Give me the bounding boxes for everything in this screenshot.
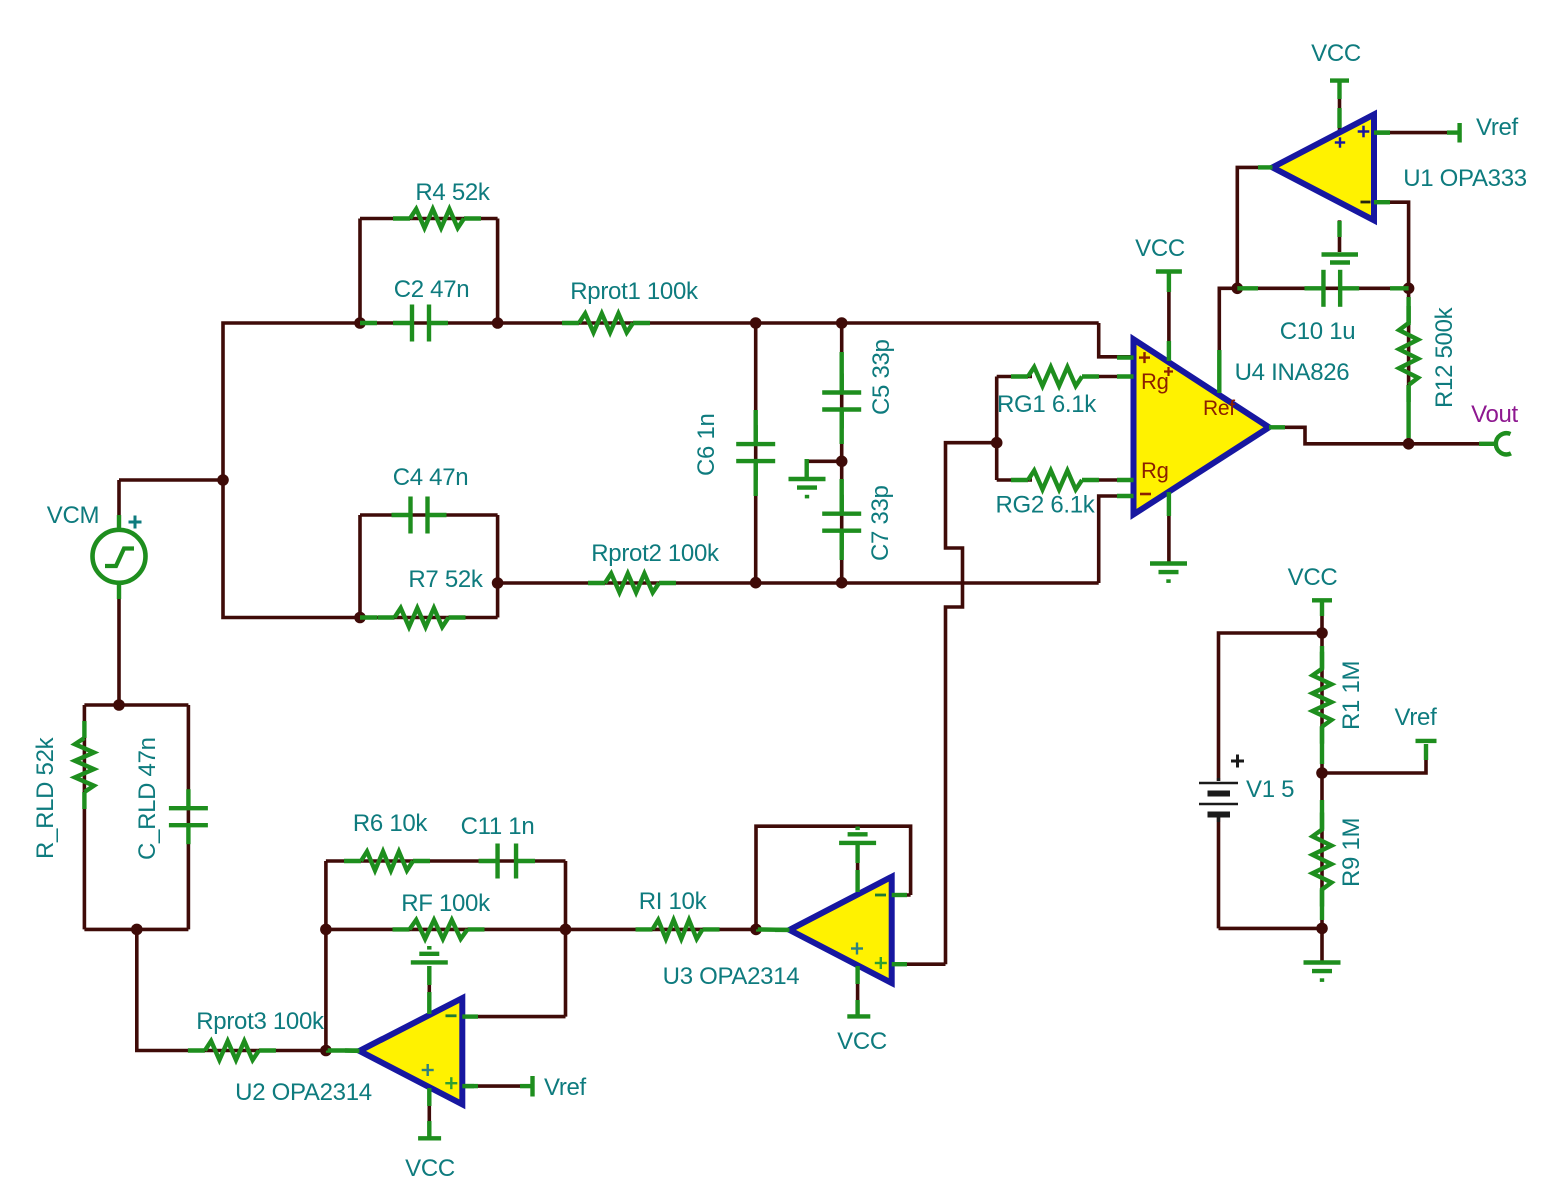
wire C_RLD vertical	[187, 705, 191, 929]
wire RG2 left link	[997, 478, 1032, 482]
pin + power (U1)	[1335, 137, 1345, 147]
resistor R7 52k	[378, 608, 466, 627]
svg-text:Rg: Rg	[1141, 458, 1169, 483]
wire Rg-node vertical with jog	[946, 443, 997, 965]
svg-text:C11 1n: C11 1n	[461, 813, 535, 840]
wire U1 output loop	[1237, 167, 1272, 288]
wire V1 bottom branch	[1219, 927, 1323, 931]
svg-text:C10 1u: C10 1u	[1280, 318, 1356, 345]
svg-text:U2 OPA2314: U2 OPA2314	[235, 1079, 372, 1106]
node C6 bottom junction	[750, 577, 762, 589]
pin + power (U3)	[851, 943, 863, 955]
wire V1 VCC stem	[1320, 601, 1324, 633]
wire U3 +in wire	[892, 962, 946, 966]
label C11 1n	[461, 813, 535, 840]
label R9 1M	[1338, 818, 1365, 887]
label RG2 6.1k	[996, 492, 1096, 519]
svg-text:Vref: Vref	[1476, 114, 1519, 141]
wire top-left rail	[223, 323, 360, 618]
pin stub U3 out	[775, 928, 789, 932]
label V1 5	[1246, 776, 1294, 803]
wire C4 box right vertical	[496, 515, 500, 618]
wire RLD to Rprot3	[137, 929, 326, 1050]
wire ground stem (divider)	[1320, 928, 1324, 961]
svg-text:R4 52k: R4 52k	[415, 179, 491, 206]
node RLD bottom junction	[131, 924, 143, 936]
resistor R6 10k	[344, 852, 430, 871]
wire C2 line	[360, 321, 498, 325]
ground at C5/C7	[789, 479, 826, 498]
svg-text:Vout: Vout	[1471, 401, 1518, 428]
terminal Vout output pin	[1479, 433, 1511, 454]
node C5 top junction	[836, 317, 848, 329]
wire ground stub drop	[805, 459, 809, 478]
wire U3 -in wire	[892, 893, 911, 897]
wire U3 output lead	[756, 927, 789, 932]
pin stub U1 +in	[1374, 130, 1390, 134]
label C2 47n	[394, 276, 470, 303]
resistor Rprot2 100k	[588, 574, 676, 593]
label RG1 6.1k	[997, 391, 1097, 418]
svg-text:Rprot3 100k: Rprot3 100k	[196, 1008, 325, 1035]
capacitor C6 1n	[736, 425, 775, 480]
svg-text:C5 33p: C5 33p	[868, 339, 895, 415]
pin - input (U1)	[1361, 201, 1371, 204]
label RF 100k	[401, 890, 491, 917]
wire Vref branch	[1322, 744, 1426, 773]
label RI 10k	[639, 888, 708, 915]
label Vref (U2)	[544, 1074, 587, 1101]
label Rprot1 100k	[570, 278, 699, 305]
node R9 bottom junction	[1316, 923, 1328, 935]
wire VCM top lead	[117, 480, 121, 532]
wire U2 bottom power stem	[427, 1087, 431, 1136]
pin stub U2 bot	[427, 1088, 431, 1106]
svg-text:Vref: Vref	[544, 1074, 587, 1101]
node VCM-rail junction	[217, 474, 229, 486]
pin Rg bottom label (U4)	[1141, 458, 1169, 483]
node Ref junction	[1232, 283, 1244, 295]
wire C5-C7 column	[840, 323, 844, 583]
label Rprot2 100k	[591, 540, 720, 567]
svg-text:VCC: VCC	[1288, 564, 1338, 591]
pin stub U4 Rg2	[1117, 478, 1134, 482]
wire U2 top power stem	[427, 984, 431, 1006]
label R12 500k	[1431, 306, 1458, 408]
pin stub U1 out	[1258, 165, 1273, 169]
svg-text:C7 33p: C7 33p	[867, 485, 894, 561]
label C4 47n	[393, 464, 469, 491]
label C5 33p	[868, 339, 895, 415]
ground above U2 (flipped)	[411, 946, 448, 962]
wire RF line	[326, 928, 566, 932]
power VCC bar (U2)	[418, 1121, 441, 1138]
wire R7 line	[360, 616, 498, 620]
pin stub U4 out	[1269, 425, 1285, 429]
wire feedback left vertical	[324, 861, 328, 1051]
wire feedback right vertical	[564, 861, 568, 1017]
svg-text:R9 1M: R9 1M	[1338, 818, 1365, 887]
terminal Vref (divider)	[1416, 741, 1437, 760]
pin stub U4 gnd	[1167, 492, 1171, 516]
node Rprot2 junction	[492, 577, 504, 589]
label U3 OPA2314	[663, 963, 800, 990]
node R7 left junction	[354, 612, 366, 624]
wire V1 bottom lead	[1217, 816, 1221, 928]
wire R4 line	[360, 217, 498, 221]
resistor Rprot3 100k	[188, 1041, 276, 1060]
label Vout	[1471, 401, 1518, 428]
terminal Vref (U2)	[462, 1076, 532, 1097]
wire R12 vertical	[1407, 288, 1411, 444]
resistor R4 52k	[393, 209, 481, 228]
pin stub U4 Rg1	[1117, 374, 1134, 378]
svg-text:RI 10k: RI 10k	[639, 888, 708, 915]
wire RG left vertical	[995, 377, 999, 481]
wire RLD box bottom	[84, 928, 188, 932]
wire C4 box left vertical	[358, 515, 362, 618]
svg-text:C_RLD 47n: C_RLD 47n	[134, 737, 161, 860]
op-amp U2 OPA2314	[359, 998, 462, 1104]
resistor Rprot1 100k	[562, 314, 650, 333]
resistor R9 1M	[1313, 813, 1332, 907]
pin stub U3 bot	[855, 966, 859, 984]
wire U2 +in to Vref	[462, 1084, 529, 1088]
svg-text:VCC: VCC	[837, 1028, 887, 1055]
svg-text:RG2 6.1k: RG2 6.1k	[996, 492, 1096, 519]
pin stub U1 vcc	[1337, 108, 1341, 128]
node C5-C7 mid junction	[836, 456, 848, 468]
pin + input (U2)	[445, 1077, 457, 1089]
pin stub U2 out	[345, 1048, 359, 1053]
pin stub U4 ref	[1217, 350, 1221, 393]
label C7 33p	[867, 485, 894, 561]
wire R6-C11 line	[326, 859, 566, 863]
capacitor C4 47n	[392, 497, 447, 534]
wire R_RLD vertical	[83, 705, 87, 929]
svg-text:U3 OPA2314: U3 OPA2314	[663, 963, 800, 990]
label U4 INA826	[1235, 359, 1350, 386]
svg-text:C4 47n: C4 47n	[393, 464, 469, 491]
wire R4 box right vertical	[496, 219, 500, 324]
svg-text:VCC: VCC	[1135, 235, 1185, 262]
svg-text:R12 500k: R12 500k	[1431, 306, 1458, 408]
wire U1 +in to Vref	[1374, 131, 1456, 135]
pin stub U1 -in	[1374, 200, 1390, 204]
wire RLD box top	[84, 703, 188, 707]
resistor RI 10k	[636, 920, 720, 939]
wire U4 output	[1269, 427, 1409, 444]
label VCM plus	[129, 516, 142, 529]
label C_RLD 47n	[134, 737, 161, 860]
resistor R1 1M	[1313, 652, 1332, 744]
node Vout junction	[1403, 438, 1415, 450]
pin stub U4 +in	[1117, 355, 1134, 359]
wire stub C10 left	[1237, 286, 1258, 290]
pin stub U2 top	[427, 992, 431, 1014]
svg-text:Ref: Ref	[1203, 397, 1235, 420]
pin + power (U2)	[422, 1064, 434, 1076]
label U1 OPA333	[1403, 165, 1527, 192]
pin stub U4 -in	[1117, 494, 1134, 498]
resistor R_RLD 52k	[75, 721, 94, 809]
capacitor C5 33p	[822, 374, 861, 429]
pin stub U3 top	[855, 870, 859, 892]
pin - (U4)	[1140, 493, 1151, 496]
resistor RG1 6.1k	[1011, 367, 1099, 386]
svg-text:Rprot2 100k: Rprot2 100k	[591, 540, 720, 567]
label C10 1u	[1280, 318, 1356, 345]
terminal Vref (U1)	[1374, 123, 1460, 143]
wire C4 line	[360, 513, 498, 517]
op-amp U3 OPA2314	[789, 877, 891, 983]
svg-text:R6 10k: R6 10k	[353, 810, 429, 837]
capacitor C7 33p	[822, 495, 861, 550]
wire stub C2 left	[360, 321, 377, 325]
node RLD top junction	[113, 699, 125, 711]
wire R9 vertical	[1320, 773, 1324, 928]
capacitor C10 1u	[1304, 270, 1359, 307]
wire V1 left branch	[1219, 633, 1323, 781]
wire U2 top power stem green	[427, 966, 431, 985]
label V1 plus	[1231, 755, 1244, 768]
ground below R9	[1304, 963, 1341, 982]
wire U3 top power stem	[856, 862, 860, 882]
wire U4 bottom power stem	[1167, 492, 1171, 562]
wire Rprot1 segment	[498, 321, 1099, 325]
wire U2 output lead	[326, 1048, 360, 1052]
wire RG1 left link	[997, 375, 1032, 379]
op-amp U1 OPA333	[1273, 115, 1375, 221]
node C2 left junction	[354, 317, 366, 329]
label Rprot3 100k	[196, 1008, 325, 1035]
wire stub C10 right	[1390, 286, 1409, 290]
label R6 10k	[353, 810, 429, 837]
node C2 right junction	[492, 317, 504, 329]
label R1 1M	[1338, 661, 1365, 730]
wire step to U4 -in	[1099, 496, 1134, 583]
capacitor C11 1n	[479, 844, 536, 879]
wire U4 Ref wire	[1219, 288, 1237, 394]
wire U1 bottom power stem	[1338, 220, 1342, 252]
ground above U3 (flipped)	[839, 827, 876, 843]
label VCC (U2)	[405, 1155, 455, 1182]
pin stub U3 +in	[892, 962, 907, 966]
svg-text:R1 1M: R1 1M	[1338, 661, 1365, 730]
svg-text:Vref: Vref	[1395, 704, 1438, 731]
svg-text:RG1 6.1k: RG1 6.1k	[997, 391, 1097, 418]
wire Rprot2 segment	[498, 581, 1099, 585]
svg-text:C2 47n: C2 47n	[394, 276, 470, 303]
power VCC bar (U1)	[1330, 81, 1349, 99]
resistor R12 500k	[1399, 306, 1418, 402]
pin Rg top label (U4)	[1141, 367, 1173, 394]
node RF right junction	[560, 924, 572, 936]
label R_RLD 52k	[32, 736, 59, 859]
label VCC (U4)	[1135, 235, 1185, 262]
wire ground stub	[807, 459, 842, 463]
source VCM	[93, 515, 146, 599]
label VCM	[47, 502, 99, 529]
wire step to U4 +in	[1099, 323, 1134, 357]
svg-text:V1 5: V1 5	[1246, 776, 1294, 803]
pin stub U2 -in	[462, 1014, 478, 1018]
label VCC (divider)	[1288, 564, 1338, 591]
wire U4 VCC stem	[1167, 272, 1171, 362]
pin + input (U1)	[1358, 126, 1370, 138]
wire stub rail R7	[360, 615, 377, 619]
node RG midpoint junction	[991, 437, 1003, 449]
ground U1 bottom	[1322, 255, 1359, 263]
pin Ref label (U4)	[1203, 397, 1235, 420]
label R7 52k	[408, 566, 484, 593]
capacitor C_RLD 47n	[169, 789, 208, 844]
wire C6 column	[754, 323, 758, 583]
wire RI segment	[566, 928, 757, 932]
wire R4 box left vertical	[358, 219, 362, 324]
label Vref (U1)	[1476, 114, 1519, 141]
pin stub U1 vee	[1337, 221, 1341, 237]
node RF left junction	[320, 924, 332, 936]
node U3 output junction	[750, 924, 762, 936]
node C7 bottom junction	[836, 577, 848, 589]
pin stub U4 vcc	[1167, 341, 1171, 361]
power VCC bar (U4)	[1156, 272, 1182, 293]
label VCC (U1)	[1311, 40, 1361, 67]
op-amp U4 INA826	[1134, 339, 1270, 514]
wire U3 feedback loop	[756, 826, 911, 929]
resistor RF 100k	[393, 920, 485, 939]
svg-text:VCM: VCM	[47, 502, 99, 529]
pin stub U2 +in	[462, 1084, 478, 1088]
wire U2 -in wire	[462, 1015, 565, 1019]
svg-text:VCC: VCC	[1311, 40, 1361, 67]
wire U1 -in wire	[1374, 202, 1409, 288]
node C6 top junction	[750, 317, 762, 329]
wire R1 vertical	[1320, 633, 1324, 773]
svg-text:Rprot1 100k: Rprot1 100k	[570, 278, 699, 305]
ground U4 bottom	[1150, 564, 1187, 583]
pin stub U3 -in	[892, 893, 907, 897]
svg-text:R7 52k: R7 52k	[408, 566, 484, 593]
label VCC (U3)	[837, 1028, 887, 1055]
svg-text:VCC: VCC	[405, 1155, 455, 1182]
svg-text:U4 INA826: U4 INA826	[1235, 359, 1350, 386]
wire RG2 lead to U4	[1082, 478, 1134, 482]
node Vref junction (divider)	[1316, 767, 1328, 779]
wire U3 bottom power stem	[856, 964, 860, 1014]
pin + (U4)	[1139, 352, 1150, 363]
power VCC bar (divider)	[1312, 600, 1332, 616]
label C6 1n	[693, 413, 720, 476]
capacitor C2 47n	[393, 305, 448, 342]
wire VCM to rail	[119, 478, 223, 482]
svg-text:RF 100k: RF 100k	[401, 890, 491, 917]
wire VCM bottom lead	[117, 582, 121, 705]
wire C10 line	[1237, 286, 1408, 290]
node C10 right junction	[1403, 283, 1415, 295]
wire U1 VCC stem	[1338, 81, 1342, 131]
wire Vout segment	[1409, 442, 1479, 446]
svg-text:C6 1n: C6 1n	[693, 413, 720, 476]
svg-text:R_RLD 52k: R_RLD 52k	[32, 736, 59, 859]
node V1 top junction	[1316, 627, 1328, 639]
power VCC bar (U3)	[847, 1000, 870, 1016]
svg-text:U1 OPA333: U1 OPA333	[1403, 165, 1527, 192]
label Vref (divider)	[1395, 704, 1438, 731]
label U2 OPA2314	[235, 1079, 372, 1106]
wire RG1 lead to U4	[1082, 375, 1134, 379]
wire U3 top power stem green	[855, 843, 859, 863]
pin + input (U3)	[875, 957, 887, 969]
battery V1	[1199, 778, 1238, 822]
svg-text:Rg: Rg	[1141, 369, 1169, 394]
node U2 output junction	[320, 1045, 332, 1057]
pin - input (U2)	[446, 1014, 457, 1017]
resistor RG2 6.1k	[1011, 471, 1099, 490]
label R4 52k	[415, 179, 491, 206]
pin - input (U3)	[875, 894, 886, 897]
